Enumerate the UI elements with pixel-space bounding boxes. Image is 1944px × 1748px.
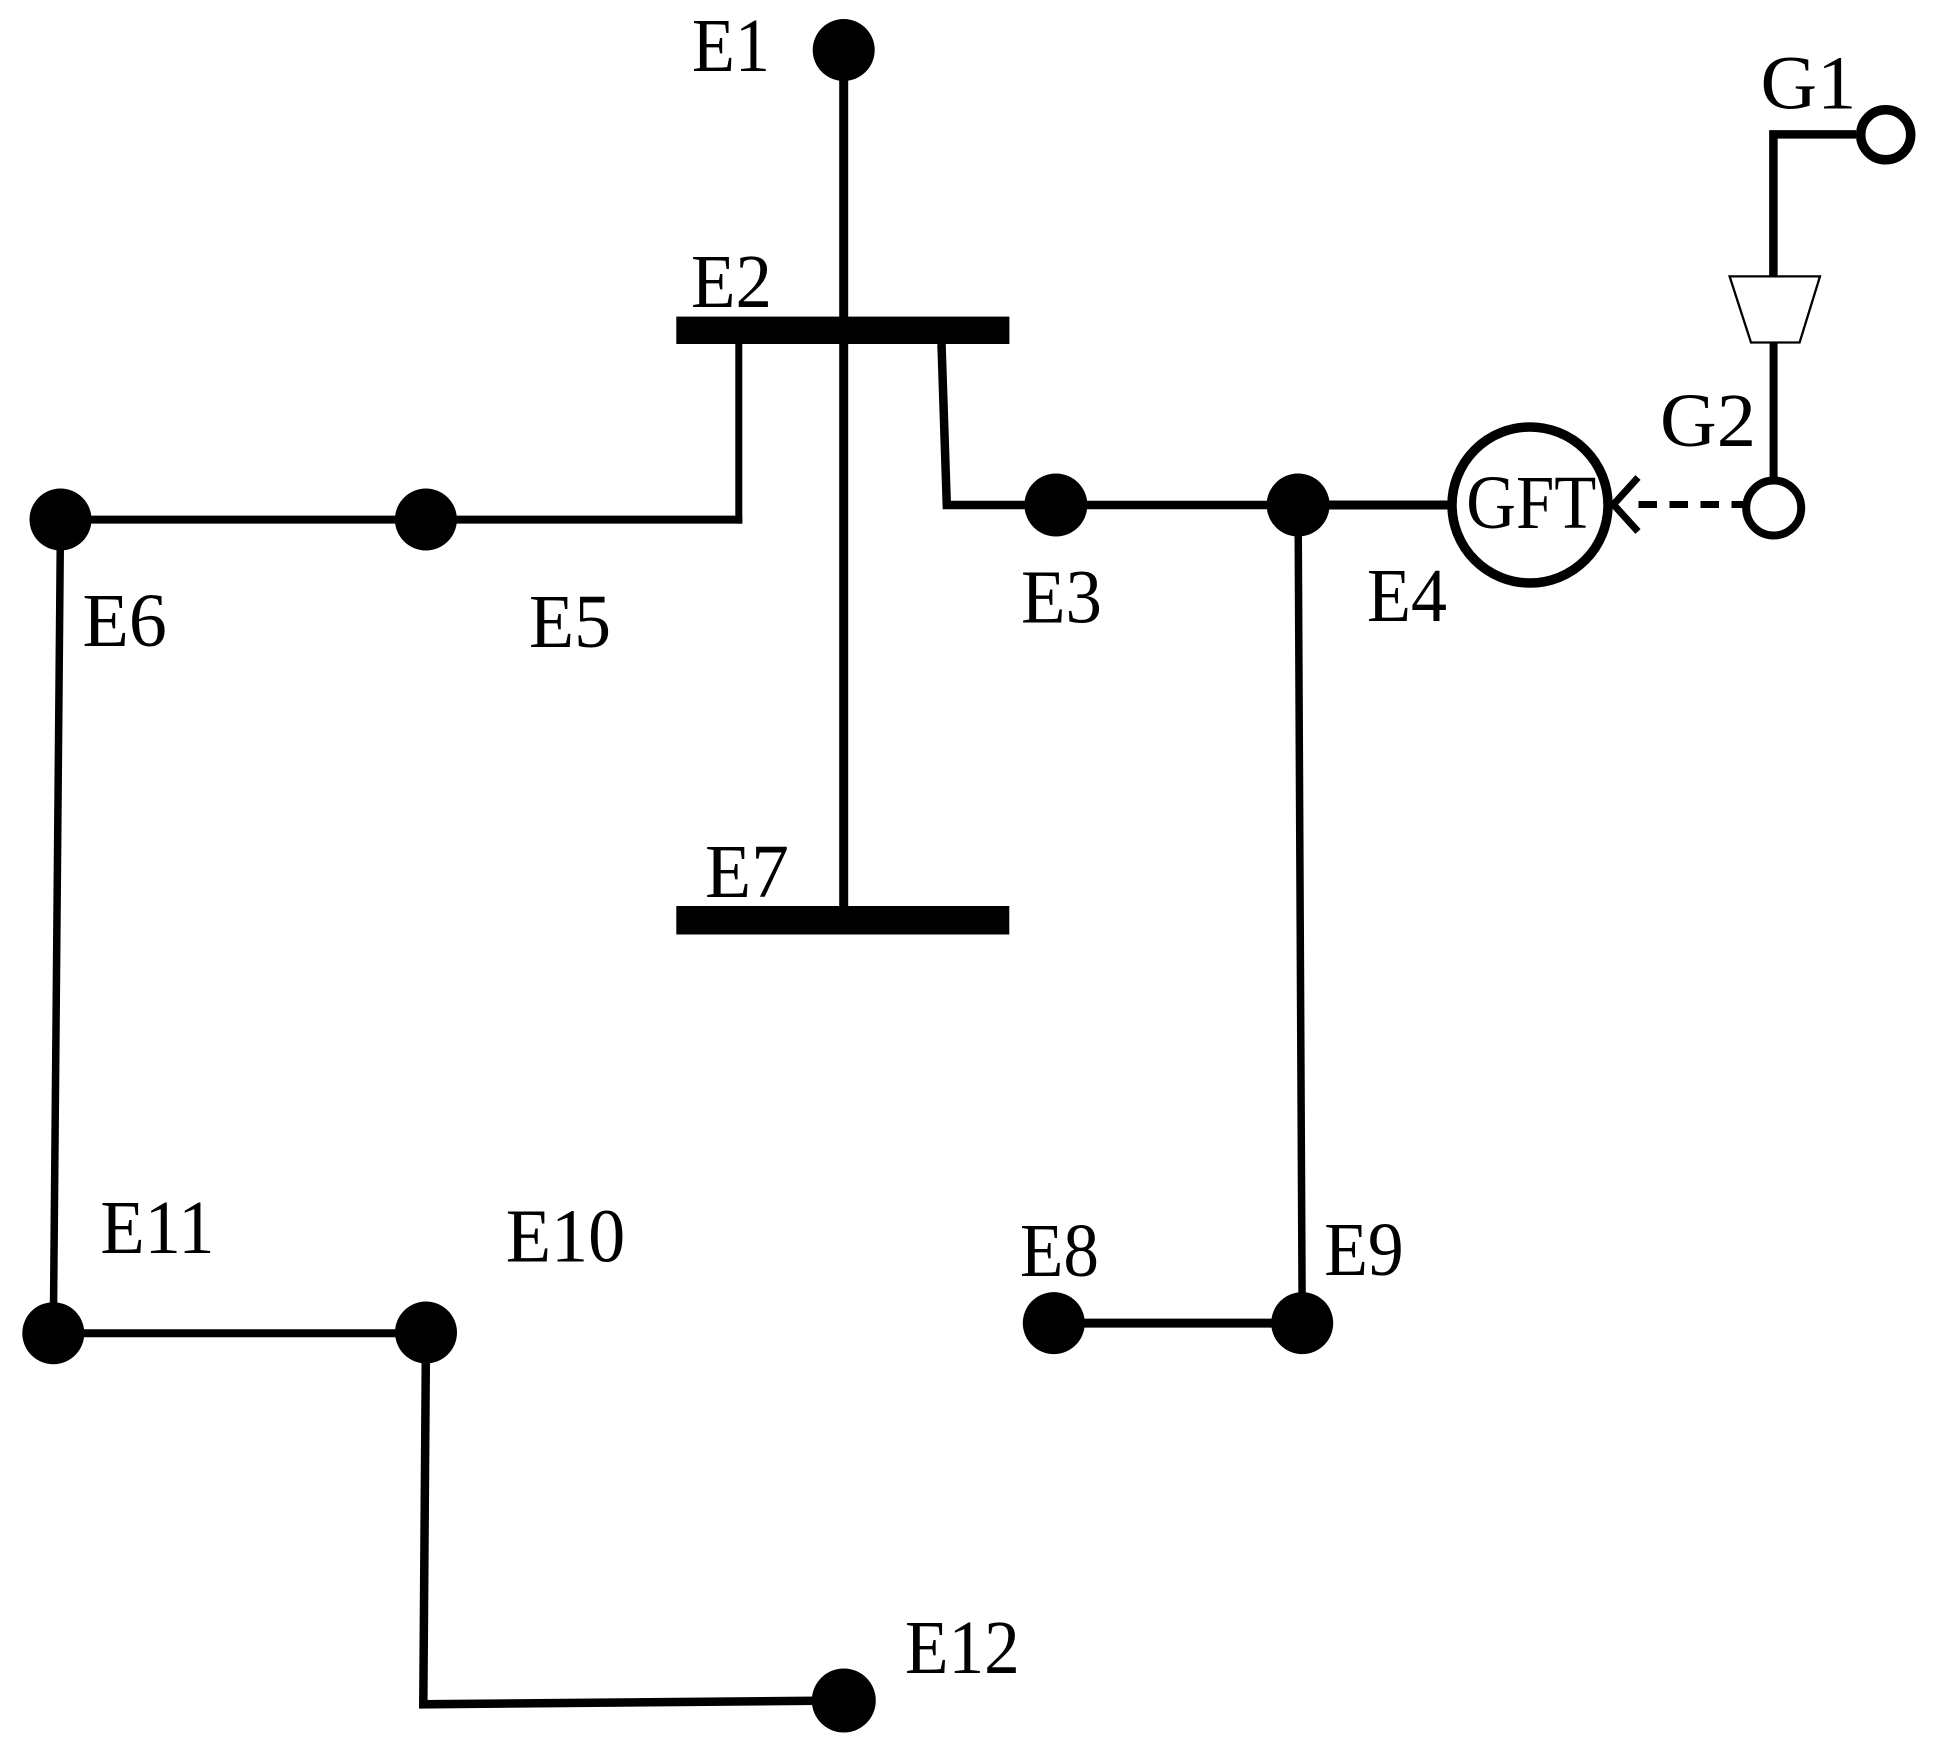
- svg-text:GFT: GFT: [1466, 461, 1596, 545]
- svg-text:E10: E10: [506, 1195, 626, 1279]
- svg-text:E9: E9: [1324, 1208, 1404, 1292]
- svg-text:G1: G1: [1761, 42, 1857, 126]
- svg-text:E3: E3: [1021, 556, 1102, 640]
- svg-text:G2: G2: [1660, 379, 1756, 463]
- svg-text:E6: E6: [83, 579, 167, 663]
- svg-text:E4: E4: [1367, 554, 1447, 638]
- svg-text:E11: E11: [100, 1186, 214, 1270]
- svg-text:E2: E2: [691, 240, 772, 324]
- svg-text:E5: E5: [529, 580, 611, 664]
- svg-text:E8: E8: [1020, 1209, 1099, 1293]
- svg-text:E1: E1: [692, 4, 770, 88]
- svg-text:E12: E12: [905, 1606, 1020, 1690]
- svg-text:E7: E7: [705, 830, 789, 914]
